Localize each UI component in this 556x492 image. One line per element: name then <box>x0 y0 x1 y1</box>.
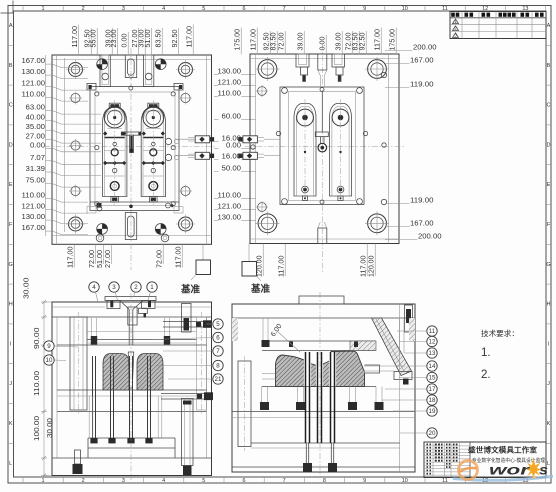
view2 inner edge lines <box>255 54 257 244</box>
neck details <box>146 128 161 130</box>
svg-text:30.00: 30.00 <box>24 277 31 299</box>
section3 bottom plate top <box>52 457 212 459</box>
svg-text:2: 2 <box>82 6 85 12</box>
section4 core step tail <box>365 365 380 373</box>
svg-text:72.00: 72.00 <box>346 32 353 50</box>
body circles <box>111 149 118 156</box>
svg-text:110.00: 110.00 <box>22 193 46 200</box>
svg-text:H: H <box>547 302 551 308</box>
section3 funnel left wing <box>107 301 120 309</box>
svg-text:117.00: 117.00 <box>375 29 382 51</box>
section3 AB split line <box>87 331 197 333</box>
datum symbol 1 square <box>196 260 211 275</box>
section4 plate line y350 <box>262 350 376 352</box>
section4 top plate bottom <box>232 317 415 319</box>
svg-text:1.: 1. <box>481 347 491 359</box>
section4 left support column <box>238 361 251 447</box>
section3 cavity bottle right <box>137 354 163 391</box>
svg-text:130.00: 130.00 <box>218 69 242 76</box>
svg-text:wor: wor <box>489 463 530 478</box>
svg-text:117.00: 117.00 <box>361 255 368 277</box>
svg-text:2: 2 <box>134 284 138 291</box>
svg-text:A: A <box>9 23 13 29</box>
section3 centerline <box>130 293 132 480</box>
svg-text:110.00: 110.00 <box>34 371 41 396</box>
view1 water line dashes <box>175 138 195 140</box>
svg-text:9: 9 <box>363 6 366 12</box>
balloon 21 <box>213 374 223 384</box>
balloon 12 <box>427 336 437 346</box>
corner trim mark <box>1 1 14 14</box>
body bars <box>143 137 163 139</box>
svg-text:0.00: 0.00 <box>226 143 241 150</box>
neck details <box>107 128 122 130</box>
bottle centerline <box>152 100 154 205</box>
svg-text:D: D <box>547 142 551 148</box>
svg-text:130.00: 130.00 <box>22 69 46 76</box>
section3 side walls <box>56 317 58 458</box>
section3 bottom-left bolt <box>75 450 81 464</box>
view1 pocket outer <box>90 87 179 211</box>
section4 core bolts with heads <box>261 387 263 403</box>
svg-text:117.00: 117.00 <box>251 29 258 51</box>
view2 pocket corner screws <box>282 88 288 94</box>
section3 stripper bar <box>87 339 197 341</box>
svg-text:167.00: 167.00 <box>410 221 434 228</box>
datum symbol 2 square <box>242 262 257 277</box>
cap circle <box>104 107 125 128</box>
section4 top-left bolt <box>262 318 264 340</box>
view2 pocket edge circles <box>276 131 280 135</box>
svg-text:9: 9 <box>47 343 51 350</box>
svg-text:50.00: 50.00 <box>222 166 242 173</box>
view1 edge screw holes <box>71 93 80 102</box>
section3 cavity bottle left <box>103 354 129 391</box>
section4 slide link bar <box>364 365 405 367</box>
revision triangles <box>453 19 459 24</box>
section4 right verticals <box>399 304 401 472</box>
svg-text:100.00: 100.00 <box>34 416 41 441</box>
svg-text:18: 18 <box>429 397 436 404</box>
view1 top center slot <box>125 55 136 78</box>
cap bar <box>109 103 120 107</box>
view2 water fittings left <box>243 136 258 143</box>
svg-text:10: 10 <box>46 357 53 364</box>
view2 runner ball <box>318 143 327 152</box>
svg-text:167.00: 167.00 <box>22 225 46 232</box>
section3 sprue bushing body <box>128 307 137 325</box>
svg-text:51.00: 51.00 <box>97 250 104 268</box>
svg-text:1: 1 <box>41 6 44 12</box>
section3 ejector pins <box>92 356 94 438</box>
svg-text:4: 4 <box>92 284 96 291</box>
cap circle <box>143 107 164 128</box>
section3 sprue funnel cap <box>105 297 156 301</box>
view2 cavity outline cx=305 <box>294 104 316 197</box>
svg-text:92.50: 92.50 <box>264 32 271 50</box>
bottom tab <box>302 196 307 200</box>
section3 long stop bolt <box>182 399 194 466</box>
section3 guide pillar left <box>70 317 87 410</box>
balloon 17 <box>427 384 437 394</box>
svg-text:21: 21 <box>215 376 222 383</box>
section3 sprue channel <box>128 310 130 346</box>
view2 centerline vertical <box>321 44 323 272</box>
view1 guide pillar holes <box>69 63 83 77</box>
view2 guide bushings <box>258 60 277 79</box>
section4 bar studs <box>289 342 293 348</box>
svg-text:K: K <box>547 421 551 427</box>
e-works logo e ring <box>459 461 478 480</box>
svg-text:110.00: 110.00 <box>22 92 46 99</box>
svg-text:72.00: 72.00 <box>279 32 286 50</box>
mid dot <box>339 151 341 153</box>
section3 puller rod top <box>163 321 203 323</box>
svg-text:27.00: 27.00 <box>105 250 112 268</box>
svg-text:5: 5 <box>202 6 205 12</box>
svg-text:72.00: 72.00 <box>89 250 96 268</box>
svg-text:20: 20 <box>429 430 436 437</box>
grid column ticks <box>22 6 24 12</box>
section3 A-plate bolts <box>91 318 93 336</box>
body circles <box>150 149 157 156</box>
svg-text:6: 6 <box>216 335 220 342</box>
view1 sprue puller pin <box>130 136 132 150</box>
svg-text:9: 9 <box>363 478 366 484</box>
bottle centerline <box>304 99 306 201</box>
svg-text:11: 11 <box>429 328 436 335</box>
section3 support pin vertical <box>182 304 192 333</box>
svg-text:8: 8 <box>323 478 326 484</box>
section4 hatch small left <box>232 318 238 341</box>
view2 pocket mid screws <box>320 88 324 92</box>
balloon 5 <box>213 319 223 329</box>
view1 runner bar <box>121 132 141 135</box>
svg-text:C: C <box>9 103 13 109</box>
view1 pocket corner screws <box>95 92 99 96</box>
svg-text:B: B <box>547 63 551 69</box>
section4 plate line y341 <box>262 340 376 342</box>
bottom dot <box>303 188 307 192</box>
svg-text:120.00: 120.00 <box>369 255 376 277</box>
svg-text:83.50: 83.50 <box>353 32 360 50</box>
view1 bottom center slot <box>125 213 136 240</box>
view1 top cylinder <box>127 59 134 75</box>
svg-text:92.50: 92.50 <box>172 29 179 47</box>
section4 slide rod <box>376 318 405 371</box>
svg-text:8: 8 <box>216 363 220 370</box>
revision table rows <box>450 17 546 19</box>
svg-text:117.00: 117.00 <box>68 246 75 268</box>
svg-text:130.00: 130.00 <box>22 214 46 221</box>
cap circle <box>332 109 349 126</box>
svg-text:83.50: 83.50 <box>271 32 278 50</box>
svg-text:117.00: 117.00 <box>279 255 286 277</box>
black diamonds <box>142 131 146 135</box>
svg-text:119.00: 119.00 <box>410 198 434 205</box>
svg-text:s: s <box>539 463 549 478</box>
view1 pocket bottom rail <box>90 201 179 203</box>
balloon 18 <box>427 395 437 405</box>
svg-text:J: J <box>547 381 550 387</box>
view2 cavity outline cx=340.5 <box>330 104 352 197</box>
view1 top channel right <box>144 55 154 87</box>
balloon 2 <box>131 282 141 292</box>
svg-text:121.00: 121.00 <box>218 80 242 87</box>
svg-text:39.00: 39.00 <box>298 32 305 50</box>
balloon 3 <box>109 282 119 292</box>
svg-text:120.00: 120.00 <box>257 255 264 277</box>
svg-text:117.00: 117.00 <box>176 246 183 268</box>
svg-text:15: 15 <box>429 375 436 382</box>
svg-text:130.00: 130.00 <box>218 215 242 222</box>
view2 top clamp feature right <box>332 54 345 67</box>
svg-text:110.00: 110.00 <box>218 193 242 200</box>
svg-text:3: 3 <box>122 6 125 12</box>
datum leader lines <box>202 244 204 260</box>
svg-text:200.00: 200.00 <box>413 45 437 52</box>
svg-text:0.00: 0.00 <box>122 33 129 47</box>
svg-text:5: 5 <box>216 321 220 328</box>
svg-text:60.00: 60.00 <box>222 114 242 121</box>
svg-text:4: 4 <box>162 6 165 12</box>
view1 channel circles <box>102 73 109 80</box>
view1 plate outline <box>52 55 212 244</box>
section4 plate lines lower <box>232 411 415 413</box>
section3 support plate <box>57 389 207 391</box>
balloon 19 <box>427 406 437 416</box>
svg-text:基准: 基准 <box>250 283 271 295</box>
view1 top cylinder vee <box>128 75 131 79</box>
svg-text:7: 7 <box>283 6 286 12</box>
section3 ejector retainer plate <box>88 437 175 439</box>
svg-text:6: 6 <box>242 478 245 484</box>
svg-text:B: B <box>9 63 13 69</box>
svg-text:1: 1 <box>41 478 44 484</box>
svg-text:L: L <box>9 461 12 467</box>
view1 inner edge lines <box>56 55 58 244</box>
revision table columns <box>461 12 463 39</box>
svg-text:14: 14 <box>429 363 436 370</box>
svg-text:16.00: 16.00 <box>222 136 242 143</box>
section3 sprue cone <box>128 352 134 388</box>
svg-text:5: 5 <box>202 478 205 484</box>
svg-text:200.00: 200.00 <box>418 234 442 241</box>
svg-text:175.00: 175.00 <box>235 29 242 51</box>
section3 gate block <box>138 308 147 313</box>
section3 puller rod bottom <box>161 393 204 395</box>
section4 slide foot <box>394 372 412 380</box>
svg-text:121.00: 121.00 <box>218 204 242 211</box>
revision table frame <box>450 12 546 39</box>
svg-text:J: J <box>9 381 12 387</box>
bottle centerline <box>340 99 342 201</box>
section3 funnel vee <box>120 301 129 310</box>
svg-text:D: D <box>9 142 13 148</box>
title block frame <box>424 442 546 478</box>
section3 funnel pins <box>110 301 113 308</box>
svg-text:H: H <box>9 302 13 308</box>
svg-text:40.00: 40.00 <box>26 115 46 122</box>
svg-text:16.00: 16.00 <box>222 154 242 161</box>
svg-text:30.00: 30.00 <box>47 418 54 438</box>
view2 edge holes <box>258 87 267 96</box>
view1 water circuit circles <box>165 138 171 144</box>
view1 cavity insert cx=114.7 <box>103 107 127 197</box>
view1 sprue slot <box>130 135 134 152</box>
svg-text:39.00: 39.00 <box>336 32 343 50</box>
svg-text:12: 12 <box>429 339 436 346</box>
view2 sprue bushing top <box>318 54 327 70</box>
svg-text:13: 13 <box>429 350 436 357</box>
e-works logo star <box>526 458 542 480</box>
section4 angled slide <box>372 318 412 376</box>
section4 top-right bolts <box>405 305 413 332</box>
mid dot <box>304 151 306 153</box>
title block left table grid <box>424 445 470 447</box>
svg-text:盛世博文模具工作室: 盛世博文模具工作室 <box>468 446 537 455</box>
bottle centerline <box>114 100 116 205</box>
section3 funnel right wing <box>142 301 156 309</box>
svg-text:A: A <box>547 23 551 29</box>
svg-text:117.00: 117.00 <box>187 26 194 48</box>
section4 ejector pins dark <box>305 352 307 443</box>
svg-text:技术要求：: 技术要求： <box>481 328 519 338</box>
body bars <box>105 137 125 139</box>
revision table headers <box>451 13 543 17</box>
svg-text:7: 7 <box>283 478 286 484</box>
svg-text:2: 2 <box>82 478 85 484</box>
svg-text:0.00: 0.00 <box>320 36 327 50</box>
svg-text:8: 8 <box>323 6 326 12</box>
section4 centerline <box>319 292 321 478</box>
e-works logo swoosh <box>453 475 553 482</box>
section3 top plate bottom line <box>52 316 212 318</box>
svg-text:基准: 基准 <box>180 284 201 296</box>
svg-text:35.00: 35.00 <box>26 124 46 131</box>
section3 left dim chain <box>43 302 45 476</box>
svg-text:2.: 2. <box>481 369 491 381</box>
view2 centerline horizontal <box>245 146 406 148</box>
balloon 1 <box>147 282 157 292</box>
svg-text:4: 4 <box>162 478 165 484</box>
view2 top clamp feature left <box>296 54 309 67</box>
svg-text:10: 10 <box>402 6 408 12</box>
svg-text:K: K <box>9 421 13 427</box>
balloon 7 <box>213 346 223 356</box>
svg-text:7: 7 <box>216 348 220 355</box>
black diamonds <box>103 131 107 135</box>
view1 water fittings right <box>195 136 210 143</box>
section4 core bottom line <box>262 386 376 388</box>
svg-text:167.00: 167.00 <box>410 58 434 65</box>
svg-text:3: 3 <box>112 284 116 291</box>
section3 guide pillar right <box>197 317 207 410</box>
grid row ticks <box>8 44 14 46</box>
view1 pocket top center screw <box>129 86 133 90</box>
view2 bottom center boss <box>318 228 327 244</box>
view1 centerline horizontal <box>44 146 216 148</box>
svg-text:90.00: 90.00 <box>34 327 41 349</box>
svg-text:55.00: 55.00 <box>91 29 98 47</box>
svg-text:175.00: 175.00 <box>390 29 397 51</box>
svg-text:75.00: 75.00 <box>26 178 46 185</box>
balloon 13 <box>427 348 437 358</box>
section3 return pins <box>88 396 90 438</box>
cap bar <box>148 103 159 107</box>
svg-text:G: G <box>546 262 550 268</box>
svg-text:121.00: 121.00 <box>22 81 46 88</box>
balloon 6 <box>213 332 223 342</box>
balloon 9 <box>44 341 54 351</box>
section4 long pins to heads <box>305 443 307 463</box>
balloon 4 <box>89 282 99 292</box>
section4 hatched bar ends <box>350 341 376 351</box>
balloon 10 <box>44 355 54 365</box>
svg-text:17: 17 <box>429 386 436 393</box>
title block tiny cell marks <box>427 444 458 475</box>
svg-text:G: G <box>9 262 13 268</box>
svg-text:167.00: 167.00 <box>22 58 46 65</box>
svg-text:92.50: 92.50 <box>360 32 367 50</box>
section3 outer body <box>52 302 212 476</box>
svg-text:83.50: 83.50 <box>156 29 163 47</box>
svg-text:C: C <box>547 103 551 109</box>
svg-text:1: 1 <box>150 284 154 291</box>
view1 left extension verticals <box>45 55 47 236</box>
svg-text:121.00: 121.00 <box>22 204 46 211</box>
svg-text:11: 11 <box>442 6 448 12</box>
svg-text:7.07: 7.07 <box>30 155 45 162</box>
view2 pocket outer <box>280 87 364 205</box>
cap circle <box>297 109 314 126</box>
view1 centerline vertical <box>130 48 132 270</box>
svg-text:E: E <box>547 182 551 188</box>
view1 extra corner circles <box>96 234 104 242</box>
svg-text:11: 11 <box>442 478 448 484</box>
section3 A-plate bottom <box>57 344 207 346</box>
bottom tab <box>111 197 119 203</box>
view1 pocket clamp slots <box>87 84 96 91</box>
svg-text:19: 19 <box>429 408 436 415</box>
svg-text:72.00: 72.00 <box>157 250 164 268</box>
section4 wavy core (cavity profile) <box>276 351 365 387</box>
svg-text:6: 6 <box>242 6 245 12</box>
view2 runner <box>321 92 323 133</box>
svg-text:117.00: 117.00 <box>72 26 79 48</box>
bottom tab <box>150 197 158 203</box>
balloon 20 <box>427 428 437 438</box>
section4 top tab <box>299 296 344 304</box>
view1 pocket inner <box>95 92 175 206</box>
section4 outer body <box>232 304 415 472</box>
svg-text:63.00: 63.00 <box>26 105 46 112</box>
balloon 8 <box>213 360 223 370</box>
view1 balance quadrant marks <box>97 59 108 70</box>
svg-text:23.00: 23.00 <box>111 29 118 47</box>
svg-text:10: 10 <box>402 478 408 484</box>
bottom dot <box>339 188 343 192</box>
balloon 15 <box>427 372 437 382</box>
svg-text:0.00: 0.00 <box>30 142 45 149</box>
bottom tab <box>338 196 343 200</box>
balloon 11 <box>427 326 437 336</box>
view2 plate outline <box>250 54 399 244</box>
balloon 14 <box>427 361 437 371</box>
view2 pocket inner <box>289 92 356 201</box>
svg-text:27.00: 27.00 <box>26 134 46 141</box>
section3 top plate inner line <box>52 306 105 308</box>
